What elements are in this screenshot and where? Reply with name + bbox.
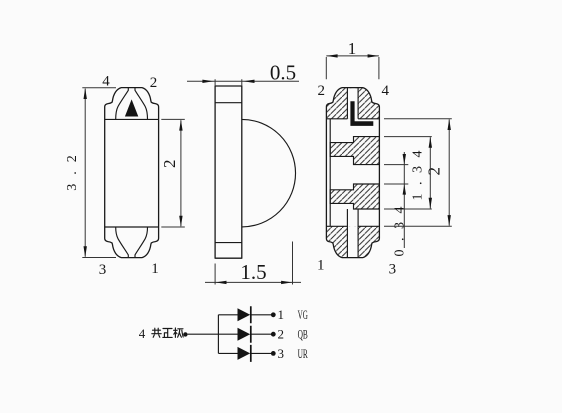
svg-text:4: 4	[139, 326, 146, 341]
svg-text:3: 3	[99, 262, 107, 278]
svg-text:0.34: 0.34	[392, 198, 407, 256]
svg-text:VG: VG	[298, 307, 308, 322]
svg-text:4: 4	[102, 73, 110, 89]
svg-text:1: 1	[348, 39, 357, 58]
svg-text:2: 2	[160, 159, 179, 168]
svg-text:0.5: 0.5	[270, 61, 296, 85]
svg-text:1.5: 1.5	[240, 260, 266, 284]
svg-text:1: 1	[151, 261, 159, 277]
svg-text:UR: UR	[298, 346, 308, 361]
svg-text:3: 3	[389, 262, 397, 278]
svg-text:1: 1	[277, 307, 284, 322]
svg-text:QB: QB	[298, 327, 308, 342]
svg-text:1.34: 1.34	[411, 142, 426, 201]
svg-text:3: 3	[277, 346, 284, 361]
svg-text:4: 4	[381, 83, 389, 99]
svg-text:2: 2	[318, 83, 326, 99]
svg-text:2: 2	[150, 75, 158, 91]
svg-text:1: 1	[317, 258, 325, 274]
svg-text:2: 2	[277, 327, 284, 342]
svg-text:3.2: 3.2	[65, 146, 80, 191]
svg-text:2: 2	[425, 167, 444, 176]
